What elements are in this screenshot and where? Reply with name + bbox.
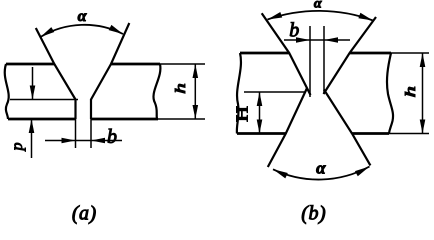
right plate (a) break edge (153, 64, 160, 119)
svg-text:α: α (78, 8, 88, 25)
h arrow up (a) (193, 64, 199, 78)
b dimension line (b) (284, 39, 350, 41)
p arrow down (a) (30, 86, 36, 100)
right plate (b) bottom surface (352, 132, 389, 135)
b extension right (a) (90, 119, 92, 148)
H arrow down (b) (257, 120, 263, 134)
right plate (b) upper bevel (324, 17, 377, 94)
p extension line (a) (10, 99, 78, 101)
right plate (b) top surface (350, 52, 391, 55)
b extension left (b) (309, 26, 311, 97)
groove angle arc (a) (40, 25, 123, 37)
arc arrow left (a) (40, 27, 54, 37)
h extension top (b) (391, 52, 429, 54)
b arrow right (b) (296, 37, 310, 43)
h extension bottom (b) (389, 133, 429, 135)
svg-text:b: b (289, 20, 299, 42)
h extension top (a) (160, 63, 205, 65)
left plate (b) upper bevel (262, 13, 311, 95)
h arrow up (b) (420, 53, 426, 67)
p arrow up (a) (29, 119, 35, 133)
left plate (b) lower bevel (268, 89, 307, 168)
left plate (b) bottom surface (237, 132, 286, 135)
groove angle arc top (b) (268, 11, 374, 21)
svg-text:(b): (b) (301, 203, 326, 225)
svg-text:h: h (402, 86, 418, 97)
svg-text:p: p (9, 143, 26, 152)
b arrow right (a) (62, 138, 76, 144)
svg-text:α: α (316, 159, 326, 178)
left plate (a) root face (74, 99, 76, 119)
svg-text:h: h (172, 83, 188, 94)
h dimension line (a) (194, 64, 196, 119)
b arrow left (b) (324, 37, 338, 43)
left plate (a) top surface (6, 63, 54, 66)
H extension line (b) (244, 91, 306, 93)
left plate (a) break edge (5, 64, 9, 119)
left plate (a) bevel face (36, 28, 76, 100)
H arrow up (b) (257, 92, 263, 106)
svg-text:α: α (314, 0, 322, 11)
right plate (a) top surface (111, 63, 160, 66)
arc arrow left bottom (b) (273, 169, 288, 178)
arc arrow left top (b) (268, 12, 283, 20)
right plate (a) root face (90, 99, 92, 119)
h arrow down (b) (420, 120, 426, 134)
h extension bottom (a) (158, 118, 205, 120)
arc arrow right (a) (109, 25, 123, 34)
svg-text:H: H (233, 106, 252, 122)
H dimension line (b) (259, 92, 261, 134)
right plate (a) bottom surface (91, 118, 158, 121)
right plate (a) bevel face (91, 23, 129, 100)
p leader below (a) (31, 119, 33, 158)
h dimension line (b) (422, 53, 424, 134)
b arrow left (a) (91, 138, 105, 144)
b extension right (b) (323, 26, 325, 94)
p leader above (a) (32, 67, 34, 100)
groove angle arc bottom (b) (273, 167, 370, 180)
right plate (b) lower bevel (324, 90, 371, 166)
left plate (a) bottom surface (8, 118, 76, 121)
svg-text:(a): (a) (72, 203, 97, 225)
left plate (b) top surface (240, 52, 289, 55)
svg-text:b: b (107, 126, 117, 148)
b extension left (a) (75, 119, 77, 148)
arc arrow right top (b) (358, 13, 373, 21)
arc arrow right bottom (b) (355, 167, 370, 177)
left plate (b) break edge (237, 53, 241, 134)
right plate (b) break edge (387, 53, 393, 134)
b dimension line (a) (45, 140, 122, 142)
h arrow down (a) (193, 105, 199, 119)
